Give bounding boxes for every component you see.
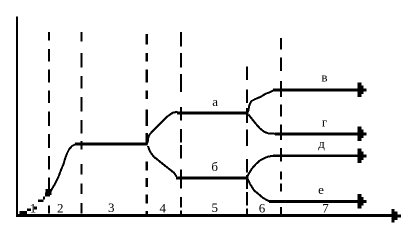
svg-text:7: 7 [322, 201, 329, 216]
svg-text:6: 6 [259, 201, 266, 216]
svg-text:1: 1 [30, 201, 37, 216]
svg-text:5: 5 [211, 200, 218, 215]
svg-text:а: а [212, 94, 218, 109]
svg-text:б: б [211, 159, 218, 174]
svg-text:3: 3 [108, 200, 115, 215]
svg-text:4: 4 [160, 201, 167, 216]
svg-text:2: 2 [57, 201, 64, 216]
svg-text:г: г [322, 115, 327, 130]
svg-text:е: е [318, 182, 324, 197]
svg-text:в: в [321, 70, 327, 85]
svg-text:д: д [318, 136, 325, 151]
